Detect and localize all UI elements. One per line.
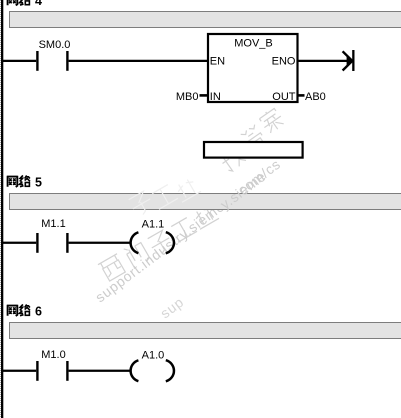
wire: rail to contact SM0.0 xyxy=(3,60,36,62)
svg-text:SM0.0: SM0.0 xyxy=(39,39,71,51)
wire: ENO to open-line arrow xyxy=(298,60,353,62)
svg-text:M1.0: M1.0 xyxy=(41,349,65,361)
svg-text:ENO: ENO xyxy=(272,56,296,68)
svg-text:AB0: AB0 xyxy=(305,91,326,103)
watermark: 找答案 (large outlined, rotated) xyxy=(219,106,286,173)
watermark fragments overlaying network 5 bar xyxy=(128,177,201,218)
wire: rail to contact M1.0 xyxy=(3,370,36,372)
network 6 title: 网络 6 xyxy=(7,304,42,318)
contact SM0.0 xyxy=(36,39,70,71)
network 5 title: 网络 5 xyxy=(7,175,42,189)
svg-text:A1.1: A1.1 xyxy=(142,219,165,231)
left dotted page edge xyxy=(0,0,2,418)
contact M1.1 xyxy=(36,218,68,253)
wire: contact to coil A1.0 xyxy=(69,370,132,372)
svg-text:EN: EN xyxy=(210,56,225,68)
svg-text:6: 6 xyxy=(35,305,42,319)
network 5 comment bar xyxy=(10,194,401,210)
operand MB0 at IN pin xyxy=(176,91,208,103)
svg-text:MB0: MB0 xyxy=(176,91,199,103)
operand AB0 at OUT pin xyxy=(298,91,326,103)
svg-text:M1.1: M1.1 xyxy=(41,218,65,230)
svg-text:4: 4 xyxy=(35,0,42,8)
svg-text:IN: IN xyxy=(210,91,221,103)
network 4 title (clipped at top): 网络 4 xyxy=(7,0,42,8)
network 4 comment bar xyxy=(10,12,401,28)
watermark: 西门子工业 (large outlined, rotated) xyxy=(98,204,219,282)
open line arrow xyxy=(343,50,355,71)
wire: rail to contact M1.1 xyxy=(3,242,36,244)
coil A1.1 xyxy=(131,219,174,254)
empty comment box xyxy=(204,142,303,158)
network 6 comment bar xyxy=(10,323,401,339)
svg-text:OUT: OUT xyxy=(272,91,296,103)
svg-text:A1.0: A1.0 xyxy=(142,349,165,361)
svg-text:5: 5 xyxy=(35,176,42,190)
wire: contact to MOV_B EN xyxy=(69,60,208,62)
contact M1.0 xyxy=(36,349,68,381)
coil A1.0 xyxy=(131,349,174,381)
left power rail xyxy=(1,0,3,418)
op-amp style function block MOV_B U1 xyxy=(208,34,298,103)
wire: contact to coil A1.1 xyxy=(69,242,132,244)
svg-text:MOV_B: MOV_B xyxy=(234,37,273,49)
